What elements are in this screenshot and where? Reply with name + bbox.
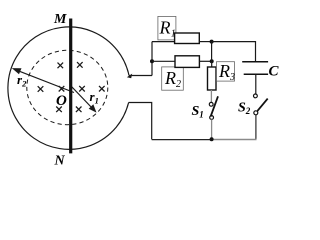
wire R3 to S1 (gray) bbox=[210, 90, 212, 102]
wire R3 top stub bbox=[211, 61, 213, 67]
flux cross x3 bbox=[38, 86, 44, 92]
node: left bus / R2 branch junction bbox=[150, 59, 154, 63]
label box R3 bbox=[217, 62, 235, 81]
svg-text:1: 1 bbox=[171, 29, 176, 40]
wire R2 branch left bbox=[152, 60, 175, 62]
capacitor C top plate bbox=[242, 61, 268, 63]
resistor R1 body bbox=[175, 33, 200, 44]
label box R1 bbox=[158, 16, 176, 40]
switch S1 blade bbox=[211, 96, 218, 116]
resistor R3 body bbox=[208, 67, 217, 90]
generator boundary circle (open at right) bbox=[8, 27, 129, 149]
svg-text:N: N bbox=[54, 154, 66, 169]
switch S2 top contact bbox=[254, 94, 258, 98]
label box R2 bbox=[162, 67, 184, 90]
flux cross x4 bbox=[59, 86, 65, 92]
radius r1 arrow bbox=[71, 86, 97, 113]
node: bottom junction bbox=[210, 137, 214, 141]
wire capacitor to S2 bbox=[255, 74, 257, 94]
svg-text:C: C bbox=[269, 64, 280, 80]
node: R1 branch right junction bbox=[210, 40, 214, 44]
wire top to capacitor bbox=[212, 42, 256, 62]
generator top terminal wire bbox=[129, 75, 152, 77]
svg-text:R: R bbox=[159, 18, 171, 38]
switch S2 bottom contact bbox=[254, 111, 258, 115]
flux cross x8 bbox=[76, 107, 82, 113]
generator bottom terminal wire bbox=[129, 103, 152, 140]
switch S1 bottom contact bbox=[210, 116, 214, 120]
bottom wire right segment (gray) bbox=[212, 139, 257, 141]
flux cross x2 bbox=[77, 62, 83, 68]
wire right link between junctions bbox=[211, 42, 213, 62]
radius r2 arrow bbox=[12, 68, 74, 92]
rod MN bbox=[69, 19, 72, 154]
wire S2 to bottom (gray) bbox=[255, 115, 257, 140]
node: R2 branch right junction bbox=[210, 59, 214, 63]
bottom wire left segment bbox=[152, 139, 212, 141]
switch S1 top contact bbox=[209, 102, 213, 106]
switch S2 blade bbox=[257, 99, 268, 112]
capacitor C bottom plate bbox=[244, 73, 268, 75]
wire R1 branch left bbox=[152, 41, 175, 43]
svg-text:O: O bbox=[56, 93, 67, 109]
wire S1 to bottom (gray) bbox=[211, 119, 213, 139]
left bus wire bbox=[151, 42, 153, 76]
wire R2 branch right bbox=[199, 60, 211, 62]
svg-text:M: M bbox=[53, 12, 67, 27]
flux cross x5 bbox=[79, 86, 85, 92]
brush contact tick at top terminal bbox=[127, 74, 132, 79]
flux cross x6 bbox=[99, 86, 105, 92]
resistor R2 body bbox=[175, 56, 199, 68]
wire R1 branch right bbox=[199, 41, 211, 43]
flux cross x1 bbox=[58, 63, 64, 69]
flux cross x7 bbox=[56, 107, 62, 113]
dashed field region circle bbox=[27, 50, 108, 124]
